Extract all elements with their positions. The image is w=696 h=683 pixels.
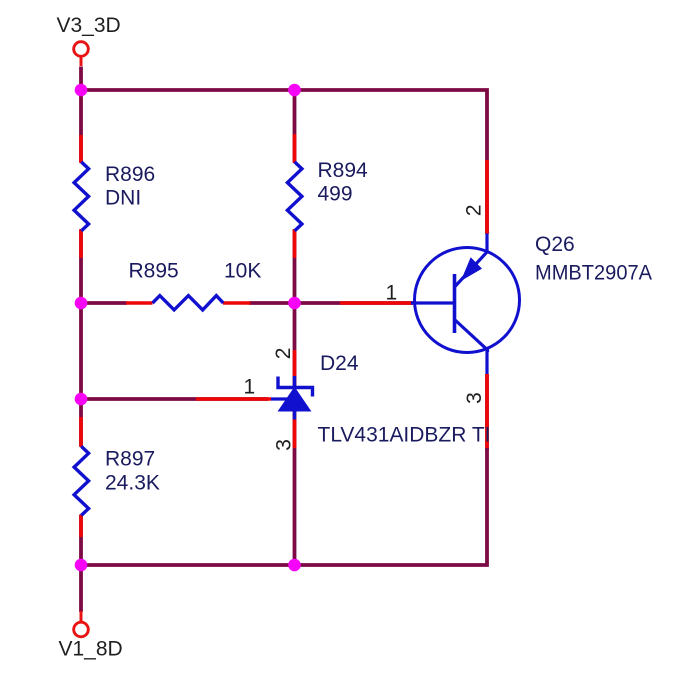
- svg-text:2: 2: [272, 348, 295, 360]
- wire row2 left segment (junction to R895): [81, 301, 127, 305]
- junction top-middle node: [288, 84, 301, 97]
- svg-text:TLV431AIDBZR TI: TLV431AIDBZR TI: [318, 423, 491, 446]
- shunt regulator D24 pin 1 (red lead left): [196, 397, 271, 401]
- shunt regulator D24 cathode stub (blue): [293, 376, 296, 388]
- wire bottom horizontal V1_8D net with right column rise to Q26 emitter: [81, 448, 487, 565]
- wire middle column upper (top to R894): [293, 90, 297, 162]
- shunt regulator D24 pin 2 (red lead top): [293, 350, 297, 376]
- svg-text:10K: 10K: [224, 260, 261, 283]
- wire middle column lower (D24 to bottom): [293, 411, 297, 565]
- resistor R894 pin 1 (red lead top): [293, 134, 297, 163]
- transistor Q26 collector lead: [455, 234, 488, 288]
- junction row2-middle node: [288, 297, 301, 310]
- wire row2 right segment (middle junction to Q26 base): [295, 301, 414, 305]
- resistor R894 body zigzag: [287, 162, 302, 231]
- resistor R896 pin 1 (red lead top): [79, 135, 83, 163]
- wire left column lower (R897 to bottom): [79, 515, 83, 613]
- transistor Q26 emitter lead: [455, 320, 488, 375]
- svg-text:3: 3: [272, 439, 295, 451]
- resistor R895 pin 2 (red lead right): [223, 301, 251, 305]
- svg-text:499: 499: [318, 183, 353, 206]
- svg-text:D24: D24: [320, 352, 359, 375]
- shunt regulator D24 reference lead (blue): [271, 397, 290, 400]
- transistor Q26 base lead: [411, 301, 455, 304]
- svg-text:Q26: Q26: [535, 233, 575, 256]
- power symbol V3_3D (red circle terminal): [74, 42, 89, 57]
- junction row3-left node: [75, 393, 88, 406]
- wire left column upper (power stub to R896): [79, 67, 83, 163]
- junction top-left node: [75, 84, 88, 97]
- shunt regulator D24 pin 3 (red lead bottom): [293, 419, 297, 448]
- junction row2-left node: [75, 297, 88, 310]
- shunt regulator D24 anode stub (blue): [293, 411, 296, 420]
- transistor Q26 circle body: [415, 248, 520, 353]
- junction bottom-middle node: [288, 559, 301, 572]
- svg-text:DNI: DNI: [105, 187, 141, 210]
- transistor Q26 pin 2 collector (red lead top): [485, 160, 489, 234]
- wire row2 middle segment (R895 to middle junction): [249, 301, 295, 305]
- resistor R895 body zigzag: [153, 296, 224, 310]
- resistor R897 body zigzag: [74, 446, 89, 515]
- svg-text:3: 3: [463, 392, 486, 404]
- wire middle column (R894 to D24): [293, 230, 297, 387]
- wire row3 horizontal (to D24 pin1): [81, 397, 268, 401]
- transistor Q26 pin 3 emitter (red lead bottom): [485, 374, 489, 448]
- transistor Q26 base bar: [453, 274, 457, 333]
- svg-text:R894: R894: [318, 159, 369, 182]
- resistor R894 pin 2 (red lead bottom): [293, 229, 297, 258]
- svg-text:MMBT2907A: MMBT2907A: [535, 262, 652, 285]
- wire right column lower (Q26 emitter to bottom): [485, 374, 489, 450]
- svg-text:R897: R897: [105, 448, 155, 471]
- junction bottom-left node: [75, 559, 88, 572]
- svg-text:V3_3D: V3_3D: [57, 14, 121, 37]
- svg-text:1: 1: [386, 282, 398, 305]
- resistor R897 pin 1 (red lead top): [79, 417, 83, 447]
- svg-text:R896: R896: [105, 163, 155, 186]
- svg-text:24.3K: 24.3K: [105, 472, 160, 495]
- resistor R896 body zigzag: [74, 162, 89, 231]
- shunt regulator D24 cathode bar with bent ends: [278, 377, 313, 397]
- svg-text:2: 2: [463, 204, 486, 216]
- shunt regulator D24 triangle body: [279, 388, 311, 412]
- transistor Q26 collector arrow (PNP): [461, 257, 482, 281]
- svg-text:1: 1: [244, 376, 256, 399]
- svg-text:R895: R895: [129, 260, 179, 283]
- wire left column middle (R896 to row3): [79, 230, 83, 446]
- power symbol V1_8D (red circle terminal): [74, 622, 89, 637]
- wire top horizontal V3_3D net with right column drop to Q26 collector: [81, 90, 487, 234]
- resistor R895 pin 1 (red lead left): [126, 301, 153, 305]
- resistor R897 pin 2 (red lead bottom): [79, 515, 83, 537]
- transistor Q26 pin 1 base (red lead left): [340, 301, 413, 305]
- svg-text:V1_8D: V1_8D: [59, 638, 123, 661]
- resistor R896 pin 2 (red lead bottom): [79, 229, 83, 258]
